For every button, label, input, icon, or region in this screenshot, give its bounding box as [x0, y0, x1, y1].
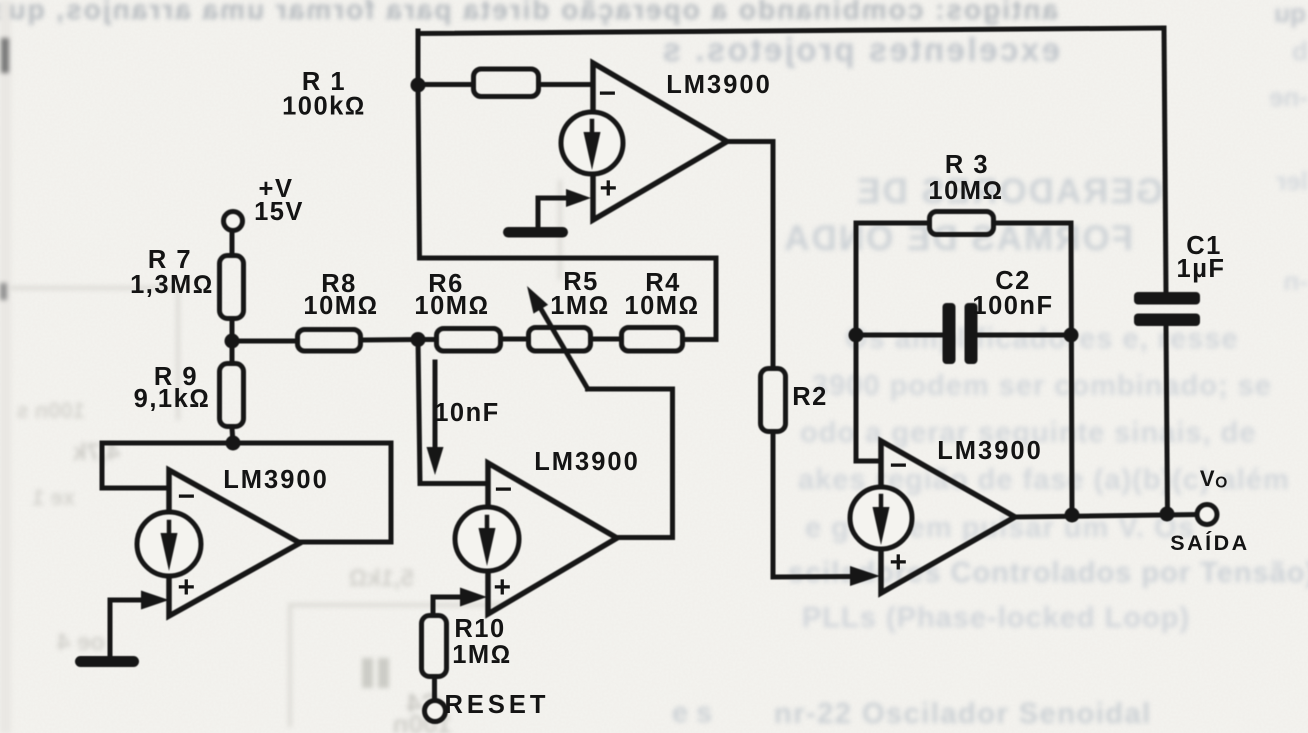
op-amp U1 triangle	[593, 63, 727, 220]
wire U1 plus to ground	[536, 198, 541, 228]
svg-text:nr-22 Oscilador Senoidal: nr-22 Oscilador Senoidal	[774, 698, 1152, 730]
svg-text:1MΩ: 1MΩ	[550, 292, 610, 320]
wire node A to R9	[230, 341, 235, 361]
wire node B to R6	[418, 337, 434, 342]
op-amp U4 plus-input arrowhead	[141, 591, 169, 610]
op-amp U1 current source	[561, 112, 623, 174]
svg-text:GERADORES DE: GERADORES DE	[855, 172, 1163, 211]
svg-text:−: −	[177, 480, 196, 513]
wire R7 to node A	[230, 320, 235, 341]
svg-text:1MΩ: 1MΩ	[452, 641, 512, 669]
svg-text:ler: ler	[1276, 166, 1308, 196]
wire R5 to R4	[592, 337, 619, 342]
wire R9 to op4 feedback box	[232, 428, 233, 443]
svg-text:3900 podem ser combinado; se: 3900 podem ser combinado; se	[812, 370, 1272, 402]
resistor R7	[220, 256, 244, 319]
svg-text:LM3900: LM3900	[223, 466, 329, 494]
capacitor C2 plates	[943, 303, 956, 364]
ground U4	[75, 656, 139, 667]
svg-text:excelentes projetos. s: excelentes projetos. s	[660, 31, 1060, 68]
wire R10 to RESET terminal	[432, 678, 437, 700]
svg-text:C2: C2	[995, 267, 1031, 295]
svg-text:5,1kΩ: 5,1kΩ	[349, 565, 414, 592]
svg-text:R10: R10	[454, 615, 505, 643]
svg-text:+: +	[599, 172, 618, 205]
svg-text:100nF: 100nF	[972, 292, 1053, 320]
svg-text:−: −	[598, 77, 617, 110]
resistor R1	[474, 69, 539, 97]
svg-text:10MΩ: 10MΩ	[414, 292, 489, 320]
terminal RESET	[425, 701, 446, 722]
wire top rail	[418, 28, 1164, 34]
wire C2 right lead	[978, 333, 1071, 338]
wire box bottom to R4 right end	[420, 258, 717, 340]
wire op3 output to SAIDA terminal	[1015, 515, 1197, 518]
wire op4 plus input to ground	[110, 600, 152, 656]
svg-text:1,3MΩ: 1,3MΩ	[130, 271, 214, 299]
op-amp U3 current source	[850, 487, 912, 549]
node R9 bottom junction	[226, 436, 241, 451]
svg-text:R 7: R 7	[148, 246, 192, 274]
wire node A to R8	[232, 339, 296, 344]
svg-text:15V: 15V	[254, 198, 304, 226]
op-amp U4 current source	[137, 512, 201, 576]
op-amp U2 current source	[455, 507, 519, 571]
wire R5 wiper diagonal	[541, 309, 588, 389]
svg-text:10MΩ: 10MΩ	[303, 292, 378, 320]
wire 10nF arrow shaft	[433, 362, 438, 450]
svg-text:PLLs (Phase-locked Loop): PLLs (Phase-locked Loop)	[802, 602, 1190, 634]
resistor R10	[422, 616, 447, 677]
wire node B down to op2 inverting input	[418, 340, 488, 484]
node output junction 1	[1065, 508, 1080, 523]
wire R6 to R5	[502, 337, 526, 342]
svg-text:100n s: 100n s	[17, 398, 86, 423]
svg-text:RESET: RESET	[444, 691, 549, 719]
resistor R3	[930, 212, 994, 235]
svg-text:-ne: -ne	[1269, 82, 1308, 112]
decorative bleed-through: right paragraph	[788, 323, 1308, 634]
resistor R8	[298, 330, 361, 352]
node B junction (R8/R6)	[411, 332, 426, 347]
svg-text:V: V	[1200, 466, 1216, 491]
op-amp U4 triangle	[169, 470, 300, 616]
svg-text:e s: e s	[672, 697, 712, 729]
svg-text:LM3900: LM3900	[666, 71, 772, 99]
op-amp U3 plus-input arrowhead	[850, 566, 880, 586]
wire C1 to output node	[1166, 325, 1168, 514]
wire R1 left lead	[418, 82, 471, 87]
wire R1 right lead to op1 inverting input	[540, 82, 593, 87]
resistor R2	[761, 369, 786, 432]
decorative scan edge	[0, 0, 11, 733]
svg-text:R2: R2	[792, 383, 828, 411]
wire C2 left lead	[856, 333, 941, 338]
wire op2 plus input	[433, 597, 470, 613]
wire op3 inverting input	[856, 459, 881, 464]
svg-text:10MΩ: 10MΩ	[928, 177, 1003, 205]
resistor R5	[529, 328, 591, 352]
svg-text:oe 4: oe 4	[56, 629, 105, 656]
wire op2 output feedback box	[588, 389, 673, 538]
wire op4 inverting input	[102, 486, 169, 491]
node A junction (R7/R9/R8)	[225, 334, 240, 349]
wire R8 to node B	[363, 337, 418, 343]
wire U1 plus-input with arrowhead	[538, 196, 568, 201]
node R1 left junction	[411, 78, 426, 93]
svg-text:−: −	[889, 449, 908, 482]
svg-text:qu: qu	[1274, 0, 1306, 28]
svg-text:antigos: combinando a operação: antigos: combinando a operação direta pa…	[0, 0, 1058, 25]
wire right drop to C1	[1164, 28, 1166, 293]
svg-text:9,1kΩ: 9,1kΩ	[134, 385, 211, 413]
wire R3 right to box right down to output	[996, 223, 1072, 515]
svg-text:R 3: R 3	[945, 151, 989, 179]
terminal SAIDA	[1197, 505, 1217, 525]
svg-text:LM3900: LM3900	[534, 448, 640, 476]
resistor R6	[437, 329, 501, 352]
svg-text:+: +	[889, 546, 908, 579]
wire +V to R7	[230, 229, 235, 253]
ground U1	[503, 227, 568, 238]
wire op3 feedback box left	[856, 223, 928, 461]
node output junction 2	[1160, 507, 1175, 522]
svg-text:b: b	[1292, 36, 1308, 66]
node C2 left junction	[849, 328, 864, 343]
wire op4 feedback box	[102, 443, 391, 542]
terminal +V	[224, 212, 243, 231]
svg-text:O: O	[1215, 475, 1229, 492]
capacitor C1 plates	[1134, 292, 1200, 305]
svg-text:xe 1: xe 1	[32, 485, 75, 510]
svg-text:LM3900: LM3900	[937, 437, 1043, 465]
op-amp U2 triangle	[488, 463, 617, 614]
svg-text:1µF: 1µF	[1177, 255, 1226, 283]
svg-text:10nF: 10nF	[434, 399, 500, 427]
svg-text:100kΩ: 100kΩ	[282, 93, 366, 121]
resistor R9	[220, 364, 244, 427]
svg-text:SAÍDA: SAÍDA	[1170, 530, 1249, 555]
wire op1 output to R2 top	[727, 142, 773, 367]
R5 wiper arrowhead	[527, 286, 548, 314]
node C2 right junction	[1064, 328, 1079, 343]
decorative bleed-through: ghost circuit lower-left	[0, 180, 560, 727]
10nF arrowhead	[427, 447, 444, 475]
svg-text:FORMAS DE ONDA: FORMAS DE ONDA	[782, 219, 1133, 258]
wire left vertical from rail through R1 node	[418, 31, 420, 258]
op-amp U3 triangle	[881, 441, 1015, 593]
svg-text:Os amplificadores e, resse: Os amplificadores e, resse	[845, 323, 1239, 355]
op-amp U2 plus-input arrowhead	[460, 588, 487, 607]
svg-text:−: −	[494, 473, 513, 506]
svg-text:+: +	[177, 571, 196, 604]
svg-text:-n: -n	[1283, 266, 1308, 296]
resistor R4	[622, 328, 683, 352]
wire R2 bottom to op3 plus input	[773, 433, 858, 577]
svg-text:+: +	[493, 571, 512, 604]
svg-text:10MΩ: 10MΩ	[624, 292, 699, 320]
